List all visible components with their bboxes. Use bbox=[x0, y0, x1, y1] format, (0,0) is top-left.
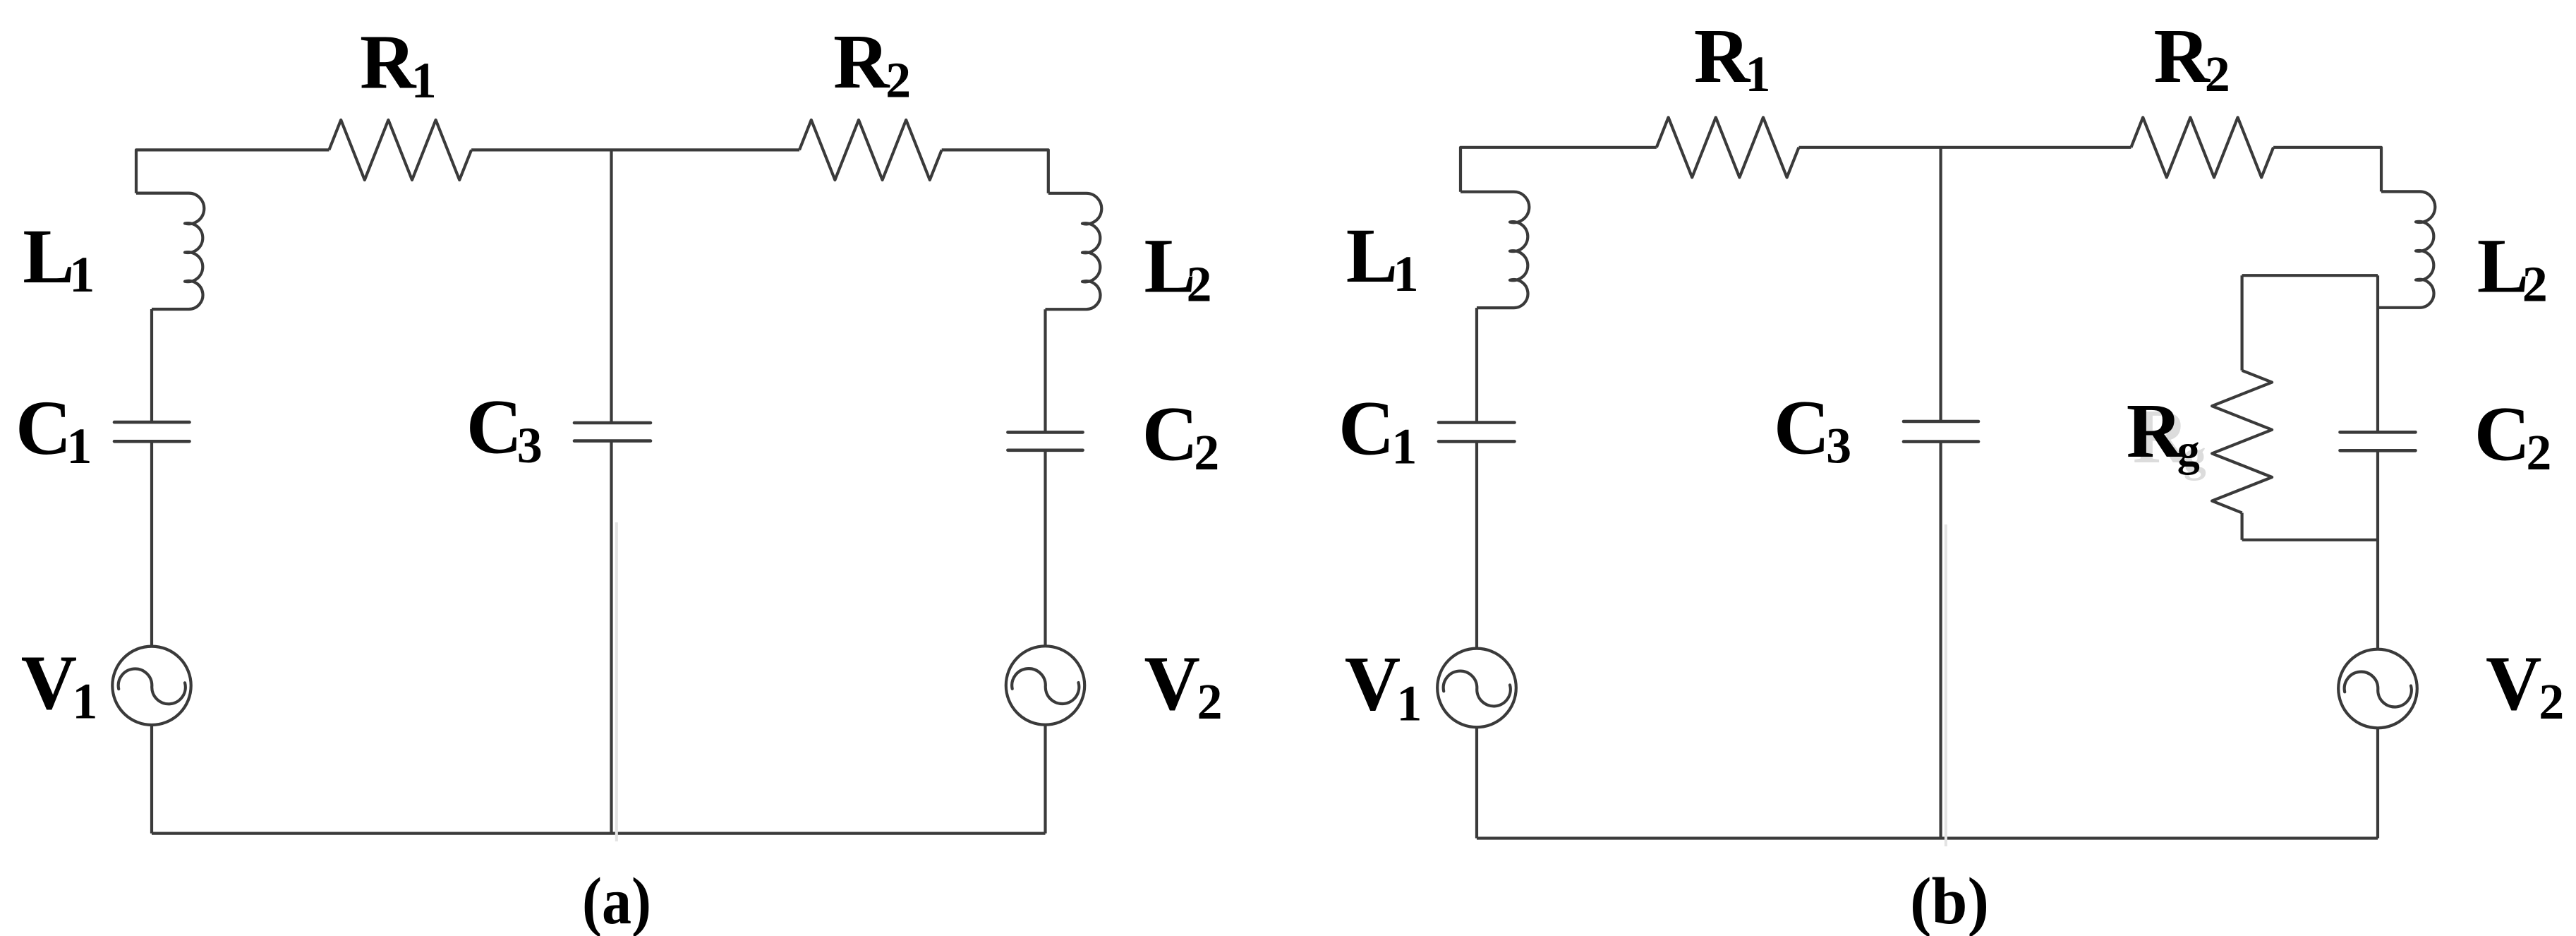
svg-text:1: 1 bbox=[1396, 675, 1422, 731]
capacitor C2 (a) bbox=[1008, 432, 1082, 450]
svg-text:R: R bbox=[1694, 13, 1751, 99]
wire: (a) left, C1 to V1 bbox=[150, 441, 153, 646]
svg-text:1: 1 bbox=[1391, 419, 1417, 475]
wire shadow artifact near C3 (a) bbox=[615, 522, 618, 841]
wire: (a) middle branch lower wire bbox=[610, 441, 612, 834]
svg-text:V: V bbox=[1144, 640, 1200, 726]
inductor L2 (a) bbox=[1046, 193, 1102, 309]
wire: (a) left, V1 to bottom bbox=[150, 725, 153, 834]
svg-text:R: R bbox=[2154, 13, 2211, 99]
svg-text:(b): (b) bbox=[1910, 865, 1989, 936]
resistor R2 (a) bbox=[799, 120, 942, 180]
svg-text:1: 1 bbox=[411, 52, 437, 109]
capacitor C1 (b) bbox=[1439, 423, 1515, 442]
svg-text:1: 1 bbox=[66, 418, 92, 474]
wire: (b) middle branch lower wire bbox=[1940, 442, 1942, 839]
svg-text:1: 1 bbox=[72, 673, 97, 730]
svg-text:1: 1 bbox=[1746, 46, 1771, 102]
wire: (b) right, V2 to bottom bbox=[2376, 728, 2379, 838]
resistor Rg (b) bbox=[2212, 371, 2272, 513]
node: (b) C3 top junction / middle branch upper wire bbox=[1940, 148, 1942, 421]
AC source V2 (a) bbox=[1006, 646, 1084, 724]
svg-text:C: C bbox=[1142, 391, 1198, 477]
AC source V1 (a) bbox=[112, 647, 191, 725]
wire: (b) top-left segment bbox=[1461, 148, 1657, 192]
wire: (a) right, C2 to V2 bbox=[1044, 450, 1046, 647]
wire: Rg top rail (b) bbox=[2242, 274, 2378, 277]
svg-text:g: g bbox=[2177, 425, 2200, 475]
resistor R1 (a) bbox=[329, 120, 471, 180]
svg-text:R: R bbox=[2127, 388, 2184, 474]
svg-text:C: C bbox=[1338, 385, 1394, 471]
svg-text:L: L bbox=[1346, 212, 1398, 299]
svg-text:2: 2 bbox=[1187, 256, 1212, 313]
capacitor C3 (b) bbox=[1904, 421, 1978, 442]
svg-text:C: C bbox=[2474, 391, 2530, 477]
wire: (a) top-left segment bbox=[136, 150, 329, 193]
svg-text:2: 2 bbox=[2526, 424, 2551, 481]
wire: (b) Rg-C2 vertical, rail corner down to C2 bbox=[2376, 275, 2379, 432]
wire: (a) top right segment bbox=[942, 150, 1048, 193]
wire: (a) bottom rail bbox=[152, 832, 1046, 834]
capacitor C1 (a) bbox=[114, 422, 190, 441]
wire: (b) top middle segment bbox=[1799, 146, 2131, 149]
node: (a) C3 top junction / middle branch upper wire bbox=[610, 150, 612, 423]
AC source V1 (b) bbox=[1437, 649, 1516, 728]
wire: (b) left, L1 to C1 bbox=[1475, 308, 1478, 422]
svg-text:L: L bbox=[2477, 222, 2529, 308]
svg-text:2: 2 bbox=[2539, 673, 2564, 730]
inductor L1 (b) bbox=[1461, 192, 1529, 308]
capacitor C3 (a) bbox=[574, 423, 651, 441]
svg-text:2: 2 bbox=[2522, 256, 2548, 313]
wire: (a) left, L1 to C1 bbox=[150, 309, 153, 422]
svg-text:V: V bbox=[2486, 640, 2541, 726]
svg-text:V: V bbox=[21, 640, 77, 726]
wire: (b) left, C1 to V1 bbox=[1475, 441, 1478, 648]
inductor L2 (b) bbox=[2378, 191, 2435, 307]
wire: Rg left upper lead (b) bbox=[2241, 275, 2244, 371]
svg-text:1: 1 bbox=[69, 246, 95, 303]
svg-text:R: R bbox=[360, 19, 417, 105]
svg-text:C: C bbox=[1774, 384, 1830, 470]
svg-text:3: 3 bbox=[1826, 418, 1851, 474]
svg-text:2: 2 bbox=[2205, 46, 2230, 102]
wire: (a) right, L2 to C2 bbox=[1044, 309, 1046, 432]
inductor L1 (a) bbox=[136, 193, 204, 309]
svg-text:1: 1 bbox=[1393, 246, 1419, 302]
svg-text:R: R bbox=[833, 18, 890, 104]
wire: (b) left, V1 to bottom bbox=[1475, 727, 1478, 838]
svg-text:V: V bbox=[1345, 641, 1401, 727]
svg-text:2: 2 bbox=[1194, 424, 1219, 481]
svg-text:(a): (a) bbox=[582, 865, 651, 936]
wire: (b) right, C2 through rail tee to V2 bbox=[2376, 450, 2379, 649]
svg-text:3: 3 bbox=[517, 417, 543, 474]
svg-text:C: C bbox=[16, 385, 71, 471]
wire: (b) bottom rail bbox=[1477, 836, 2378, 839]
wire: (b) top right segment bbox=[2273, 148, 2381, 192]
resistor R2 (b) bbox=[2131, 117, 2273, 177]
capacitor C2 (b) bbox=[2340, 432, 2416, 450]
wire shadow artifact near C3 (b) bbox=[1945, 524, 1947, 846]
wire: Rg bottom rail (b) bbox=[2242, 539, 2378, 541]
wire: (a) top middle segment bbox=[471, 148, 799, 151]
AC source V2 (b) bbox=[2338, 649, 2417, 728]
svg-text:C: C bbox=[466, 384, 522, 470]
svg-text:L: L bbox=[23, 213, 74, 299]
wire: (a) right, V2 to bottom bbox=[1044, 725, 1046, 834]
resistor R1 (b) bbox=[1657, 117, 1799, 177]
svg-text:2: 2 bbox=[885, 52, 911, 109]
svg-text:2: 2 bbox=[1197, 673, 1223, 730]
wire: Rg left lower lead (b) bbox=[2241, 513, 2244, 540]
